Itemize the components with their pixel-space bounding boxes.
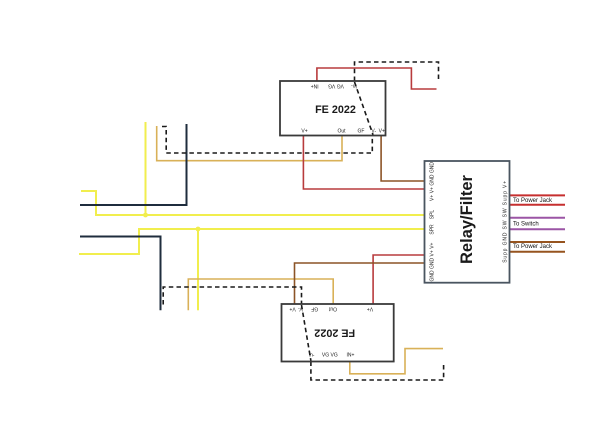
svg-text:Relay/Filter: Relay/Filter — [458, 174, 476, 264]
node junction B — [196, 227, 201, 232]
wire dashed U2 left stub — [163, 287, 301, 305]
svg-text:V-: V- — [371, 128, 376, 134]
module U1 FE 2022 (top) — [280, 81, 386, 136]
wire yellow net A branch — [145, 122, 147, 215]
wire orange U2 Out — [188, 279, 333, 310]
svg-text:SPL: SPL — [430, 210, 436, 220]
svg-text:VG VG: VG VG — [328, 82, 344, 88]
svg-text:IN+: IN+ — [311, 82, 319, 88]
svg-text:GF: GF — [311, 305, 318, 311]
wire navy net 2 — [80, 237, 161, 311]
svg-text:SPR: SPR — [430, 224, 436, 235]
svg-text:Supp GND SW SW Supp V+: Supp GND SW SW Supp V+ — [503, 181, 509, 263]
wire navy net 1 — [80, 124, 187, 205]
svg-text:FE 2022: FE 2022 — [314, 327, 355, 339]
wire dashed diagonal inside U2 — [302, 305, 311, 361]
wire brown U2 V- to relay — [295, 263, 425, 304]
wire dashed U1 V- to left — [162, 127, 372, 154]
svg-text:IN+: IN+ — [346, 353, 354, 359]
wire dashed U2 In- stub — [311, 362, 444, 381]
wire brown relay to power jack 3 — [510, 241, 566, 243]
wire yellow net A (SPL) — [81, 191, 425, 215]
svg-text:In-: In- — [309, 353, 315, 359]
wire red U1 V+ to relay — [303, 136, 424, 190]
wire dashed U1 IN- stub — [355, 62, 439, 81]
module U2 FE 2022 (bottom, rotated) — [282, 304, 394, 362]
svg-text:V+: V+ — [301, 128, 307, 134]
wire yellow net B (SPR) — [79, 229, 425, 254]
svg-text:VG VG: VG VG — [322, 353, 338, 359]
wire red U2 V+ to relay — [373, 255, 424, 304]
wire orange U1 Out to left — [157, 126, 342, 161]
wire brown U1 V+2 to relay — [381, 136, 424, 182]
wire orange U2 IN+ stub — [350, 349, 443, 374]
wire purple relay to switch 1 — [510, 217, 566, 219]
svg-text:To Power Jack: To Power Jack — [513, 244, 553, 250]
svg-text:GF: GF — [358, 128, 365, 134]
wire brown relay to power jack 4 — [510, 251, 566, 253]
wire yellow net B branch — [197, 229, 199, 310]
svg-text:V+: V+ — [367, 305, 373, 311]
svg-text:FE 2022: FE 2022 — [315, 104, 356, 116]
node junction A — [143, 213, 148, 218]
svg-text:V+: V+ — [379, 128, 385, 134]
svg-text:Out: Out — [328, 305, 337, 311]
module U3 Relay/Filter — [425, 161, 510, 283]
svg-text:V+ V+ GND GND: V+ V+ GND GND — [430, 162, 436, 201]
svg-text:In-: In- — [351, 82, 357, 88]
svg-text:To Power Jack: To Power Jack — [513, 198, 553, 204]
wire dashed diagonal inside U1 — [355, 82, 374, 135]
wire red U1 IN+ stub — [317, 68, 437, 89]
wire purple relay to switch 2 — [510, 228, 566, 230]
wire red relay to power jack 2 — [510, 204, 566, 206]
svg-text:Out: Out — [337, 128, 346, 134]
svg-text:To Switch: To Switch — [513, 222, 539, 228]
wire red relay to power jack 1 — [510, 194, 566, 196]
svg-text:GND GND V+ V+: GND GND V+ V+ — [430, 242, 436, 281]
svg-text:V-: V- — [298, 305, 303, 311]
svg-text:V+: V+ — [289, 305, 295, 311]
